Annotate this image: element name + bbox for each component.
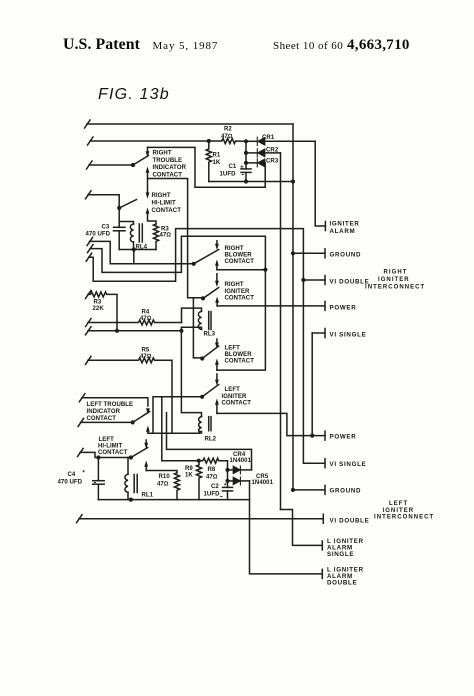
svg-text:47Ω: 47Ω	[140, 354, 152, 360]
switch LEFT HI-LIMIT CONTACT upper stub w/ arrow	[145, 440, 147, 443]
svg-text:POWER: POWER	[330, 305, 357, 312]
svg-text:VI SINGLE: VI SINGLE	[330, 461, 367, 468]
terminal tick GROUND no.2	[324, 485, 326, 494]
wire RL4 bottom drop to W1	[133, 250, 135, 264]
node junction GROUND no.2	[291, 488, 295, 492]
node slash W2	[88, 245, 94, 253]
svg-text:GROUND: GROUND	[330, 252, 362, 259]
wire blower lower throw to x=265.4	[217, 269, 266, 271]
node junction R9 top	[197, 459, 201, 463]
svg-text:LEFT TROUBLE: LEFT TROUBLE	[87, 402, 134, 408]
figure label FIG. 13b	[98, 86, 170, 104]
wire W2 staircase to blower upper throw	[90, 236, 265, 272]
resistor R3 (47 ohm by RL4)	[153, 224, 158, 250]
svg-text:*: *	[83, 471, 86, 477]
wire vertical x=315.2 to IGNITER ALARM	[315, 141, 325, 226]
svg-text:VI SINGLE: VI SINGLE	[330, 332, 367, 339]
wire VI SINGLE no.1 drop x=312.2	[311, 333, 313, 436]
wire long vertical x=293 (ground net)	[292, 182, 294, 490]
wire C3/RL4/R3 bottom line	[119, 249, 156, 251]
wire R2 right to diode bus	[246, 140, 257, 142]
switch RIGHT HI-LIMIT CONTACT upper stub	[147, 179, 149, 193]
switch LEFT BLOWER CONTACT upper stub	[216, 339, 218, 343]
wire VI DOUBLE no.1	[303, 279, 325, 281]
wire left trouble feed line	[82, 398, 148, 406]
node slash L2	[88, 137, 94, 145]
node junction RL1 bottom rail	[129, 498, 133, 502]
wire L4 hi-limit feed	[88, 195, 119, 208]
svg-text:CONTACT: CONTACT	[222, 400, 252, 406]
node pivot igniter contact	[201, 296, 205, 300]
svg-text:GROUND: GROUND	[330, 488, 362, 495]
wire L1 top bus	[87, 123, 293, 125]
relay coil RL4	[130, 224, 133, 242]
diode CR1	[257, 137, 265, 145]
node pivot blower contact	[192, 262, 196, 266]
svg-text:R4: R4	[142, 310, 150, 316]
svg-text:CONTACT: CONTACT	[87, 416, 117, 422]
header: sheet	[273, 40, 343, 52]
wire W1 staircase to blower pivot	[90, 241, 194, 263]
wire R5 line	[88, 358, 172, 433]
wire CR2 cathode right	[265, 152, 281, 154]
capacitor C4 branch	[97, 458, 99, 481]
node slash L4	[86, 191, 92, 199]
node junction R1 top	[207, 139, 211, 143]
wire R4 output riser to RL3 coil top	[182, 308, 202, 322]
header: patent number	[347, 37, 410, 54]
resistor R8	[199, 458, 228, 463]
node junction R3 22K bottom	[115, 329, 119, 333]
capacitor C1 plates	[241, 168, 251, 170]
svg-text:LEFT: LEFT	[225, 387, 241, 393]
switch left blower lower stub w/ arrow	[215, 359, 219, 365]
svg-text:POWER: POWER	[330, 434, 357, 441]
node slash L1	[85, 120, 91, 128]
svg-text:IGNITER: IGNITER	[225, 289, 250, 295]
terminal tick VI DOUBLE no.2	[322, 514, 324, 523]
svg-text:C2: C2	[211, 484, 219, 490]
node slash W1	[87, 237, 93, 245]
svg-text:LEFT: LEFT	[225, 346, 241, 352]
node pivot left igniter contact	[200, 395, 204, 399]
svg-text:C3: C3	[102, 225, 110, 231]
svg-text:IGNITER: IGNITER	[330, 221, 360, 228]
wire GROUND no.2	[293, 489, 325, 491]
svg-text:IGNITER: IGNITER	[378, 277, 410, 283]
node junction CR5 anode	[225, 479, 229, 483]
capacitor C3 branch vertical	[118, 208, 120, 227]
svg-text:CONTACT: CONTACT	[225, 259, 255, 265]
switch arm trouble contact	[133, 156, 149, 166]
wire box bottom y=181.5	[209, 181, 293, 183]
svg-text:SINGLE: SINGLE	[327, 551, 354, 558]
switch arm left trouble contact	[133, 412, 150, 423]
wire rail y=330.8	[88, 330, 181, 332]
svg-text:47Ω: 47Ω	[221, 134, 233, 140]
svg-text:DOUBLE: DOUBLE	[327, 580, 357, 587]
svg-text:R9: R9	[185, 466, 193, 472]
svg-text:HI-LIMIT: HI-LIMIT	[152, 201, 177, 207]
svg-text:LEFT: LEFT	[389, 501, 408, 507]
wire CR1 cathode to igniter alarm vertical	[265, 140, 315, 142]
terminal tick L IGNITER ALARM SINGLE	[321, 541, 323, 550]
svg-text:1UFD: 1UFD	[204, 492, 221, 498]
header: date	[153, 40, 219, 52]
wire GROUND no.1	[293, 252, 325, 254]
node junction RL4 bottom	[132, 247, 136, 251]
node slash R3 22K	[86, 290, 92, 298]
wire left igniter lower throw to POWER no.2	[217, 413, 325, 435]
svg-text:HI-LIMIT: HI-LIMIT	[98, 444, 123, 450]
svg-text:1N4001: 1N4001	[252, 480, 274, 486]
svg-text:R10: R10	[159, 474, 171, 480]
svg-text:22K: 22K	[93, 306, 105, 312]
capacitor C4 plates	[93, 480, 105, 482]
svg-text:-: -	[242, 170, 245, 179]
svg-text:RIGHT: RIGHT	[225, 246, 244, 252]
svg-text:VI DOUBLE: VI DOUBLE	[330, 518, 370, 525]
svg-text:RIGHT: RIGHT	[153, 151, 172, 157]
wire left trouble lower to RL2 coil bottom	[148, 432, 200, 434]
switch blower contact lower stub w/ arrow	[215, 260, 219, 266]
node pivot left hi-limit contact	[129, 455, 133, 459]
svg-text:-: -	[220, 492, 223, 501]
capacitor C3 plates	[114, 226, 126, 228]
switch left trouble lower stub w/ arrow	[146, 426, 150, 432]
svg-text:INDICATOR: INDICATOR	[153, 165, 187, 171]
terminal tick POWER no.1	[324, 301, 326, 310]
wire hi-limit lower to R10 top	[146, 471, 177, 473]
header: U.S. Patent	[63, 36, 140, 54]
wire CR3 cathode drop	[264, 163, 266, 187]
svg-text:CONTACT: CONTACT	[153, 173, 183, 179]
switch trouble contact lower stub w/ arrow	[146, 167, 150, 173]
svg-text:C1: C1	[229, 164, 237, 170]
switch arm left hi-limit contact	[131, 448, 148, 458]
svg-text:CONTACT: CONTACT	[152, 208, 182, 214]
wire R9 vertical	[196, 461, 201, 500]
node junction VI DOUBLE no.1	[301, 278, 305, 282]
node junction x=293 y=181.5	[291, 179, 295, 183]
terminal tick L IGNITER ALARM DOUBLE	[321, 569, 323, 578]
svg-text:CONTACT: CONTACT	[225, 359, 255, 365]
svg-text:BLOWER: BLOWER	[225, 352, 253, 358]
svg-text:IGNITER: IGNITER	[222, 394, 247, 400]
diode CR2	[257, 149, 265, 157]
node slash L3	[87, 161, 93, 169]
svg-text:R8: R8	[208, 467, 216, 473]
relay coil RL3	[198, 311, 201, 329]
svg-text:47Ω: 47Ω	[160, 233, 172, 239]
svg-text:47Ω: 47Ω	[206, 475, 218, 481]
wire L3 bus	[89, 164, 133, 166]
node junction GROUND no.1	[291, 251, 295, 255]
svg-text:CR1: CR1	[262, 135, 275, 141]
node slash rail	[86, 327, 92, 335]
resistor R10	[174, 473, 179, 500]
wire left trouble pivot line	[81, 421, 133, 423]
terminal tick POWER no.2	[324, 431, 326, 440]
switch arm left igniter contact	[202, 385, 219, 397]
relay coil RL2	[199, 417, 202, 434]
svg-text:RL3: RL3	[204, 332, 216, 338]
svg-text:R3: R3	[94, 300, 102, 306]
node junction CR3 anode	[244, 161, 248, 165]
svg-text:TROUBLE: TROUBLE	[153, 158, 183, 164]
resistor R2	[222, 138, 246, 143]
svg-text:1UFD: 1UFD	[220, 172, 237, 178]
terminal tick GROUND no.1	[324, 249, 326, 258]
svg-text:1N4001: 1N4001	[230, 458, 252, 464]
capacitor C1 bus vertical	[245, 141, 247, 169]
wire VI SINGLE no.1	[312, 332, 325, 334]
wire R9 row riser x=161.8	[162, 397, 199, 461]
wire R3 22K line	[88, 292, 117, 331]
node junction POWER no.2	[310, 434, 314, 438]
svg-text:47Ω: 47Ω	[157, 482, 169, 488]
switch arm left blower contact	[202, 346, 219, 359]
svg-text:1K: 1K	[185, 473, 193, 479]
wire CR3 stub left	[246, 162, 257, 164]
wire R4 line	[88, 320, 182, 325]
node slash R4	[86, 319, 92, 327]
svg-text:R2: R2	[224, 127, 232, 133]
node junction C1 bottom	[244, 179, 248, 183]
wire trouble contact output y=187.2	[148, 147, 266, 187]
node pivot left blower contact	[200, 356, 204, 360]
node junction CR2 anode	[244, 151, 248, 155]
wire L1 vertical drop x=293	[292, 124, 294, 182]
svg-text:47Ω: 47Ω	[140, 316, 152, 322]
wire RL1 coil bottom	[127, 492, 129, 499]
node junction CR4 anode	[225, 468, 229, 472]
wire igniter pivot bar riser x=153	[153, 397, 202, 433]
wire CR4 feed riser x=166.5	[167, 413, 252, 470]
svg-text:IGNITER: IGNITER	[383, 508, 415, 514]
svg-text:LEFT: LEFT	[99, 437, 115, 443]
svg-text:1K: 1K	[213, 160, 221, 166]
svg-text:C4: C4	[68, 472, 76, 478]
svg-text:CONTACT: CONTACT	[225, 296, 255, 302]
svg-text:CR3: CR3	[266, 159, 279, 165]
svg-text:INTERCONNECT: INTERCONNECT	[374, 515, 434, 521]
svg-text:ALARM: ALARM	[330, 228, 356, 235]
node pivot left trouble contact	[131, 420, 135, 424]
switch igniter contact lower stub w/ arrow	[215, 297, 219, 303]
wire diode bus x=227.5	[227, 461, 229, 488]
node pivot trouble contact	[131, 163, 135, 167]
wire CR5 drop to L IGNITER ALARM DOUBLE	[250, 481, 323, 574]
node junction C4 tap	[96, 455, 100, 459]
node slash VI DOUBLE rail	[77, 515, 83, 523]
svg-text:-: -	[94, 478, 97, 487]
node slash left trouble	[79, 394, 85, 402]
node pivot hi-limit contact	[117, 206, 121, 210]
svg-text:CR2: CR2	[266, 148, 279, 154]
node slash left trouble pivot	[78, 418, 84, 426]
switch LEFT TROUBLE INDICATOR CONTACT upper stub arrow	[146, 408, 150, 414]
terminal tick VI DOUBLE no.1	[324, 276, 326, 285]
switch RIGHT BLOWER CONTACT upper stub	[216, 241, 218, 244]
wire VI DOUBLE no.2 long rail	[79, 518, 323, 520]
diode CR4	[228, 469, 234, 471]
switch RIGHT TROUBLE INDICATOR CONTACT upper stub	[147, 147, 149, 151]
switch arm igniter contact	[203, 288, 219, 299]
diode CR3	[257, 159, 265, 167]
wire W3 staircase to VI DOUBLE vertical	[89, 229, 325, 464]
wire RL3 coil bottom to rail	[181, 327, 201, 331]
relay coil RL1	[125, 474, 128, 492]
node slash R5	[86, 356, 92, 364]
svg-text:RL2: RL2	[205, 437, 217, 443]
node junction rail RL3	[179, 329, 183, 333]
svg-text:R1: R1	[213, 153, 221, 159]
wire bottom rail y=499.6	[98, 499, 249, 501]
wire long vertical x=280.5 (CR2 net)	[280, 153, 282, 510]
wire CR2 stub left	[246, 152, 257, 154]
wire RL4 coil bottom	[133, 242, 135, 250]
wire POWER no.1 line	[217, 305, 325, 307]
wire vertical x=265.4 down to left blower throw	[217, 270, 266, 370]
svg-text:R5: R5	[142, 348, 150, 354]
terminal tick VI SINGLE no.2	[324, 459, 326, 468]
svg-text:RL1: RL1	[142, 493, 154, 499]
svg-text:RIGHT: RIGHT	[152, 193, 171, 199]
switch arm hi-limit contact	[119, 200, 136, 209]
capacitor C2 plates	[223, 486, 233, 488]
wire left hi-limit feed line w/ jog	[80, 452, 131, 457]
svg-text:RIGHT: RIGHT	[384, 270, 408, 276]
svg-text:VI DOUBLE: VI DOUBLE	[330, 279, 370, 286]
svg-text:INDICATOR: INDICATOR	[87, 409, 121, 415]
node slash left hi-limit	[78, 448, 84, 456]
svg-text:RL4: RL4	[136, 245, 148, 251]
svg-text:470 UFD: 470 UFD	[58, 480, 83, 486]
node slash W3	[86, 253, 92, 261]
switch left igniter lower stub w/ arrow	[215, 399, 219, 405]
terminal tick IGNITER ALARM	[324, 222, 326, 231]
wire rail vertical x=181.4 down to RL2 coil top	[181, 331, 201, 417]
terminal tick VI SINGLE no.1	[324, 329, 326, 338]
wire RL4 coil top	[119, 222, 133, 225]
wire igniter pivot T drop x=193.4 to left blower pivot	[193, 298, 202, 358]
wire trouble lower to igniter pivot staircase	[148, 179, 204, 299]
switch RIGHT IGNITER CONTACT upper stub	[216, 274, 218, 281]
wire CR2 net jog to L IGNITER ALARM SINGLE	[281, 510, 323, 546]
switch left hi-limit lower stub w/ arrow	[144, 461, 148, 467]
wire L2 bus to R1/R2	[90, 140, 222, 142]
switch LEFT IGNITER CONTACT upper stub	[216, 374, 218, 380]
switch hi-limit lower stub w/ arrow	[146, 208, 150, 214]
svg-text:CONTACT: CONTACT	[98, 450, 128, 456]
svg-text:*: *	[224, 484, 227, 490]
svg-text:470 UFD: 470 UFD	[86, 232, 111, 238]
svg-text:RIGHT: RIGHT	[225, 282, 244, 288]
resistor R1	[206, 141, 211, 182]
svg-text:BLOWER: BLOWER	[225, 253, 253, 259]
diode CR5	[228, 480, 234, 482]
node junction CR1 anode	[244, 139, 248, 143]
svg-text:INTERCONNECT: INTERCONNECT	[365, 285, 425, 291]
wire RL1 coil top riser	[127, 458, 129, 475]
switch arm blower contact	[194, 250, 219, 264]
node junction x=265.4 y=269.7	[263, 268, 267, 272]
